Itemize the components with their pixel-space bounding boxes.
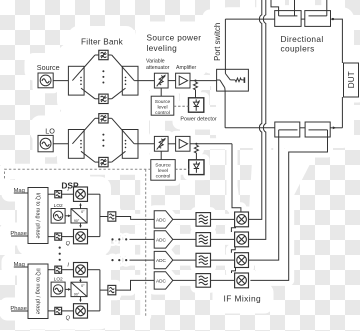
wire DC4 to DUT	[330, 127, 342, 129]
label Source power leveling	[147, 33, 202, 53]
svg-text:Q: Q	[66, 316, 71, 322]
wire port2 main line	[225, 127, 275, 129]
filter bank 1 switch wiper to top path	[72, 55, 95, 81]
quadrature splitter (DSP channel 1)	[71, 209, 87, 223]
digital mixer I (DSP channel 2)	[74, 263, 88, 277]
label Port switch	[213, 23, 222, 61]
filter bank 2 switch contact dots	[80, 140, 82, 148]
variable attenuator AT1	[154, 73, 168, 88]
wire Phase output (DSP channel 2)	[11, 310, 28, 312]
svg-text:couplers: couplers	[281, 43, 315, 53]
directional coupler DC2	[305, 11, 331, 27]
coupler DC1 tap down to mixer M1	[249, 0, 262, 219]
filter bank 2 right switch bottom contact	[112, 151, 126, 162]
svg-text:Port switch: Port switch	[213, 23, 222, 61]
wire I to mixer (DSP channel 2)	[62, 269, 74, 271]
label I (DSP channel 2)	[67, 263, 69, 269]
svg-text:Phase: Phase	[10, 306, 26, 312]
wire mixer I to IF bus (DSP channel 1)	[88, 193, 100, 195]
filter bank 1 ellipsis more filters	[102, 70, 104, 83]
svg-text:Source: Source	[155, 162, 171, 168]
filter bank 1 right switch wiper	[112, 55, 135, 81]
wire IF2 to ADC4	[116, 280, 154, 290]
junction node J1	[194, 80, 196, 82]
svg-text:attenuator: attenuator	[146, 65, 170, 71]
filter bank 2 bandpass filter (bottom)	[95, 157, 112, 166]
svg-text:Power detector: Power detector	[180, 117, 216, 123]
svg-text:Variable: Variable	[146, 59, 165, 65]
arrow LO2 to splitter (DSP channel 1)	[65, 215, 71, 218]
dashed control SLC2 to PD2	[175, 168, 189, 170]
resistor to power detector 1	[194, 82, 198, 98]
svg-text:control: control	[156, 174, 171, 180]
svg-text:LO2: LO2	[54, 203, 63, 209]
svg-text:I/Q to mag / phase: I/Q to mag / phase	[34, 268, 40, 314]
svg-text:Mag: Mag	[14, 188, 25, 194]
wire mixer I to IF bus (DSP channel 2)	[88, 269, 100, 271]
filter bank 2 bandpass filter (top)	[95, 114, 112, 123]
label LO	[45, 127, 55, 136]
svg-text:90°: 90°	[74, 293, 80, 297]
power detector PD1	[189, 98, 204, 112]
wire LO chain M2 to M3	[231, 247, 235, 253]
svg-text:Source: Source	[37, 63, 60, 72]
wire attenuator to amplifier	[168, 80, 176, 82]
ADC3 converter	[154, 251, 173, 268]
svg-text:0°: 0°	[81, 284, 85, 288]
IF mixer M1	[235, 212, 249, 227]
wire Mag output (DSP channel 2)	[14, 266, 28, 268]
filter bank 2 switch box (output side)	[122, 130, 138, 159]
wire source to switch	[53, 80, 72, 82]
label Q (DSP channel 2)	[66, 316, 71, 322]
wire Q (DSP channel 2)	[48, 310, 55, 312]
label Mag (DSP channel 1)	[14, 188, 25, 194]
IF mixer M3	[235, 253, 249, 268]
wire IF1 to ADC1	[116, 217, 154, 220]
wire ADC2 to IF filter F2	[173, 238, 196, 240]
source level control box SLC1	[151, 96, 174, 116]
numeric oscillator LO2 (DSP channel 1)	[51, 209, 65, 224]
svg-text:Filter Bank: Filter Bank	[81, 38, 124, 47]
svg-text:level: level	[157, 105, 167, 111]
svg-text:Q: Q	[66, 241, 71, 247]
svg-text:ADC: ADC	[156, 217, 167, 222]
wire ADC4 to IF filter F4	[173, 279, 196, 281]
numeric oscillator LO2 (DSP channel 2)	[51, 282, 65, 297]
filter bank 2 right switch contact dots	[125, 140, 127, 148]
filter bank 2 ellipsis more filters	[102, 134, 104, 147]
svg-text:Source: Source	[155, 99, 171, 105]
variable attenuator AT2	[154, 136, 168, 151]
port switch common arm	[217, 80, 226, 91]
dashed DSP boundary top	[5, 169, 151, 180]
wire IF bus to filter (DSP channel 2)	[100, 289, 108, 291]
label IF Mixing	[224, 293, 262, 303]
wire AT2 to A2	[168, 143, 176, 145]
filter bank 1 switch contact to bottom path	[81, 88, 95, 99]
coupler DC4 tap route to mixer M4	[250, 130, 327, 281]
amplifier A2	[176, 136, 190, 151]
wire I (DSP channel 1)	[48, 193, 55, 195]
wire DUT to port2 loop	[341, 97, 343, 128]
IF filter (DSP channel 1)	[108, 212, 116, 221]
power detector PD2	[189, 160, 204, 175]
wire dots to ADC3	[130, 259, 155, 261]
wire F4 to mixer M4	[211, 279, 235, 281]
wire amplifier to port switch	[190, 80, 217, 82]
wire DC3 to DC4	[300, 127, 305, 129]
filter bank 1 right switch contact dots	[125, 77, 127, 85]
IF mixer M2	[235, 232, 249, 247]
coupler DC1 tap up	[294, 0, 296, 16]
svg-text:Source power: Source power	[147, 33, 202, 43]
wire I (DSP channel 2)	[48, 269, 55, 271]
svg-text:leveling: leveling	[147, 43, 178, 53]
label Power detector	[180, 117, 216, 123]
label LO2 (DSP channel 2)	[54, 277, 63, 283]
label Mag (DSP channel 2)	[14, 262, 25, 268]
directional coupler DC1	[275, 11, 301, 27]
wire Q to mixer (DSP channel 1)	[62, 236, 74, 238]
wire ADC3 to IF filter F3	[173, 259, 196, 261]
svg-text:Phase: Phase	[10, 231, 26, 237]
ADC1 converter	[154, 211, 173, 228]
svg-text:LO2: LO2	[54, 277, 63, 283]
label I (DSP channel 1)	[67, 187, 69, 193]
svg-text:I/Q to mag / phase: I/Q to mag / phase	[34, 192, 40, 238]
junction node J2	[332, 18, 334, 20]
label DSP	[61, 181, 79, 191]
wire port1 main line	[225, 18, 274, 20]
wire Phase output (DSP channel 1)	[11, 235, 28, 237]
svg-text:Mag: Mag	[14, 262, 25, 268]
IF lowpass filter F4	[196, 274, 211, 288]
wire mixer Q to IF bus (DSP channel 2)	[88, 310, 100, 312]
wire DC2 to DUT corner	[331, 19, 343, 63]
IF lowpass filter F2	[196, 233, 211, 247]
filter bank 1 bandpass filter (top)	[95, 50, 112, 59]
arrow splitter to mixer Q (DSP channel 1)	[79, 223, 81, 228]
wire LO chain M1 to M2	[231, 226, 235, 232]
decimation filter Q (DSP channel 2)	[55, 307, 62, 314]
coupler DC2 tap down to mixer M2	[249, 0, 266, 239]
wire attenuator to SLC1	[160, 88, 162, 96]
quadrature splitter (DSP channel 2)	[71, 282, 87, 296]
IF mixer M4	[235, 273, 249, 288]
filter bank 1 switch box (output side)	[122, 66, 138, 95]
coupler DC3 tap down to mixer M3	[249, 130, 279, 260]
svg-text:ADC: ADC	[156, 278, 167, 283]
coupler DC2 tap up	[326, 0, 328, 16]
source generator SRC	[38, 73, 53, 88]
ellipsis ADC3 input	[111, 259, 127, 261]
wire LO chain M3 to M4	[232, 268, 236, 274]
wire Mag output (DSP channel 1)	[14, 192, 28, 194]
svg-text:90°: 90°	[74, 219, 80, 223]
svg-text:IF Mixing: IF Mixing	[224, 293, 262, 303]
ellipsis ADC2 input	[111, 238, 127, 240]
wire port2 down	[224, 91, 226, 128]
wire dots to ADC2	[130, 238, 155, 240]
wire ADC1 to IF filter F1	[173, 218, 196, 220]
filter bank 1 switch contact dots	[80, 77, 82, 85]
svg-text:level: level	[158, 168, 168, 174]
arrow splitter to mixer Q (DSP channel 2)	[79, 297, 81, 303]
ADC4 converter	[154, 272, 173, 289]
IF lowpass filter F1	[196, 213, 211, 227]
IF bus vertical (DSP channel 2)	[99, 270, 101, 311]
wire IF bus to filter (DSP channel 1)	[100, 216, 108, 218]
wire I to mixer (DSP channel 1)	[62, 193, 74, 195]
ADC2 converter	[154, 231, 173, 248]
local oscillator LO	[38, 135, 53, 151]
decimation filter I (DSP channel 1)	[55, 191, 62, 198]
directional coupler DC4	[305, 122, 330, 137]
label LO2 (DSP channel 1)	[54, 203, 63, 209]
wire port1 up	[224, 19, 226, 69]
svg-text:ADC: ADC	[156, 258, 167, 263]
I/Q converter block (DSP channel 2)	[28, 264, 48, 319]
svg-text:0°: 0°	[81, 210, 85, 214]
label Variable attenuator	[146, 59, 170, 71]
svg-text:DUT: DUT	[347, 71, 356, 88]
resistor to power detector 2	[194, 145, 198, 160]
label Amplifier	[176, 65, 196, 71]
filter bank 2 switch contact to bottom path	[81, 151, 95, 162]
arrow splitter to mixer I (DSP channel 2)	[79, 278, 81, 282]
digital mixer Q (DSP channel 2)	[74, 304, 88, 318]
svg-text:Amplifier: Amplifier	[176, 65, 196, 71]
wire F3 to mixer M3	[211, 259, 235, 261]
wire A2 to LO distribution	[190, 143, 232, 145]
port switch top throw	[225, 69, 230, 80]
wire F1 to mixer M1	[211, 218, 235, 220]
wire DC1 to DC2	[301, 18, 305, 20]
dashed control SLC1 to PD1	[174, 105, 189, 107]
svg-text:Directional: Directional	[281, 34, 324, 44]
svg-text:ADC: ADC	[156, 237, 167, 242]
filter bank 2 right switch wiper	[112, 118, 135, 144]
wire bank1 to attenuator	[134, 80, 154, 82]
decimation filter Q (DSP channel 1)	[55, 233, 62, 240]
wire LO to bank2	[53, 143, 72, 145]
I/Q converter block (DSP channel 1)	[28, 188, 48, 244]
ellipsis more DSP channels	[59, 247, 61, 261]
label Phase (DSP channel 2)	[10, 306, 26, 312]
digital mixer Q (DSP channel 1)	[74, 229, 88, 243]
filter bank 1 right switch bottom contact	[112, 88, 126, 99]
filter bank 1 switch box (input side)	[68, 66, 84, 95]
wire bank2 to attenuator 2	[134, 143, 154, 145]
filter bank 1 bandpass filter (bottom)	[95, 94, 112, 103]
IF bus vertical (DSP channel 1)	[99, 194, 101, 236]
label Phase (DSP channel 1)	[10, 231, 26, 237]
wire LO chain down	[232, 144, 241, 212]
label Directional couplers	[281, 34, 324, 54]
coupler DC1 tap jog to top	[271, 0, 279, 16]
decimation filter I (DSP channel 2)	[55, 266, 62, 273]
label Q (DSP channel 1)	[66, 241, 71, 247]
arrow toward DUT	[333, 126, 336, 129]
port switch box SW1	[217, 69, 249, 91]
label Source	[37, 63, 60, 72]
wire mixer Q to IF bus (DSP channel 1)	[88, 236, 100, 238]
svg-text:control: control	[155, 110, 170, 116]
amplifier A1	[176, 73, 190, 88]
digital mixer I (DSP channel 1)	[74, 187, 88, 201]
dashed DSP boundary right	[145, 169, 147, 316]
wire Q (DSP channel 1)	[48, 236, 55, 238]
device under test DUT	[344, 63, 359, 97]
source level control box SLC2	[151, 160, 175, 181]
wire F2 to mixer M2	[211, 238, 235, 240]
label Filter Bank	[81, 38, 124, 47]
svg-text:LO: LO	[45, 127, 55, 136]
filter bank 2 switch wiper to top path	[72, 118, 95, 144]
junction node J3	[195, 143, 197, 145]
arrow splitter to mixer I (DSP channel 1)	[79, 203, 81, 209]
filter bank 2 switch box (input side)	[68, 130, 84, 159]
arrow LO2 to splitter (DSP channel 2)	[65, 288, 71, 291]
IF lowpass filter F3	[196, 253, 211, 267]
port switch termination resistor	[230, 77, 244, 83]
wire Q to mixer (DSP channel 2)	[62, 310, 74, 312]
directional coupler DC3	[275, 122, 300, 137]
wire AT2 to SLC2	[160, 151, 162, 159]
IF filter (DSP channel 2)	[108, 285, 116, 294]
